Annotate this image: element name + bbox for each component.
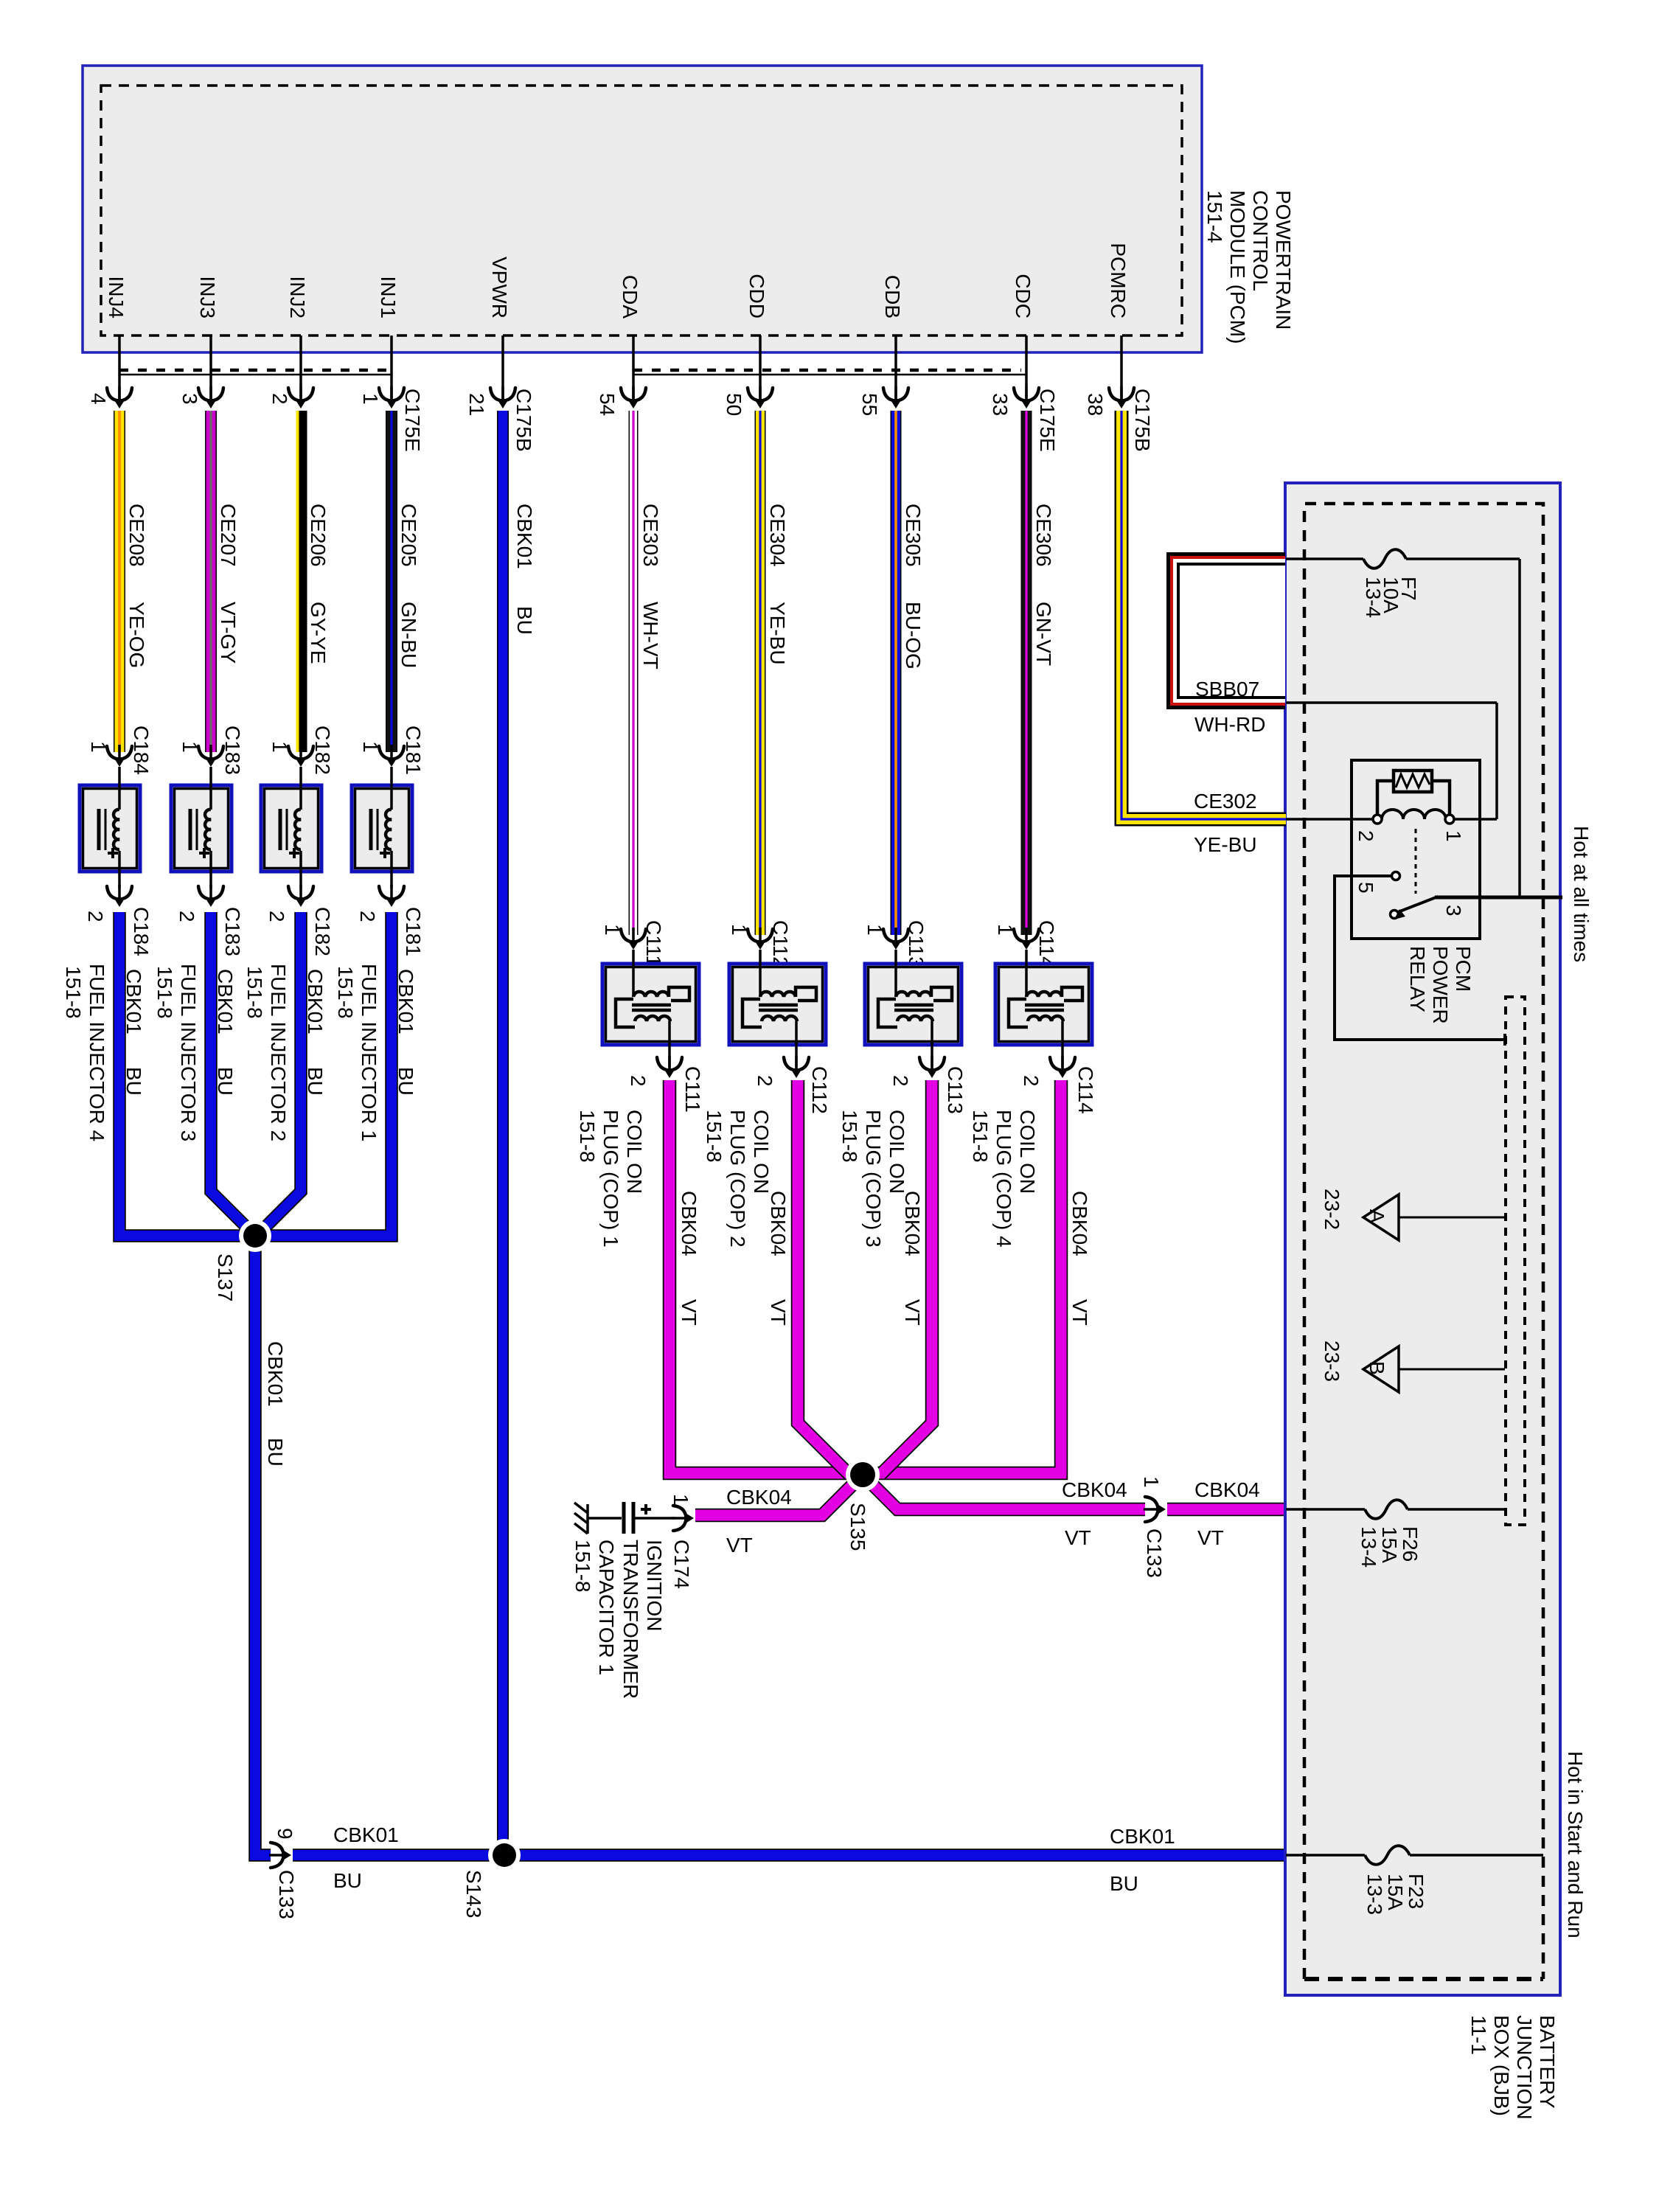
svg-text:23-2: 23-2	[1321, 1189, 1343, 1230]
svg-text:F23: F23	[1405, 1874, 1427, 1909]
svg-text:COIL ON: COIL ON	[750, 1110, 773, 1194]
svg-text:55: 55	[858, 393, 881, 416]
relay pin 3 feed (Hot at all times)	[1435, 897, 1562, 917]
labels coil on plug 4	[969, 1110, 1039, 1248]
svg-text:54: 54	[596, 393, 619, 416]
svg-text:C182: C182	[311, 726, 334, 775]
svg-text:151-8: 151-8	[571, 1540, 594, 1593]
fuse F23 labels	[1363, 1874, 1427, 1915]
svg-text:CBK01: CBK01	[264, 1341, 287, 1407]
svg-text:C112: C112	[808, 1066, 831, 1114]
CBK04 VT labels on coil drops	[678, 1191, 1091, 1326]
svg-text:CBK01: CBK01	[394, 969, 417, 1034]
svg-text:CBK01: CBK01	[122, 969, 145, 1034]
connector C174 pin 1 (ignition transformer capacitor)	[669, 1494, 695, 1589]
svg-text:Hot at all times: Hot at all times	[1570, 826, 1593, 962]
BJB inner compartment dashed box	[1506, 997, 1525, 1525]
coil on plug (COP) 2	[729, 950, 826, 1068]
svg-text:VT: VT	[1065, 1526, 1091, 1549]
svg-text:2: 2	[175, 911, 198, 922]
connector C113 pin 2 (coil on plug 3 low side)	[889, 1056, 967, 1114]
fuse F23 15A wiring	[1286, 1854, 1543, 1857]
svg-text:23-3: 23-3	[1321, 1340, 1343, 1382]
svg-text:13-3: 13-3	[1363, 1874, 1386, 1915]
svg-text:VT: VT	[767, 1299, 790, 1326]
svg-text:POWERTRAIN: POWERTRAIN	[1272, 190, 1295, 330]
label Hot in Start and Run	[1564, 1751, 1587, 1938]
svg-text:B: B	[1366, 1361, 1388, 1375]
svg-text:CE208: CE208	[125, 504, 148, 567]
svg-text:CDB: CDB	[881, 275, 904, 319]
svg-text:S143: S143	[462, 1870, 485, 1918]
wire CE206 GY-YE (PCM INJ2 to fuel injector 2)	[298, 411, 304, 752]
S137 drop labels CBK01 BU	[264, 1341, 287, 1467]
PCM pin name labels	[105, 243, 1130, 319]
wire CBK04 VT branch to ignition capacitor	[695, 1475, 863, 1515]
svg-text:C181: C181	[402, 726, 425, 775]
svg-text:CE207: CE207	[217, 504, 240, 567]
svg-text:COIL ON: COIL ON	[1016, 1110, 1039, 1194]
labels coil on plug 2	[703, 1110, 773, 1248]
ground bus labels CBK01 BU (right)	[1110, 1825, 1175, 1895]
capacitor branch labels CBK04 VT	[726, 1486, 792, 1557]
relay pin 2 terminal	[1354, 815, 1382, 842]
svg-text:C111: C111	[642, 920, 665, 967]
connector C133 pin 1 (CBK04 into BJB)	[1140, 1476, 1167, 1578]
svg-text:CE303: CE303	[639, 504, 662, 567]
svg-text:151-8: 151-8	[838, 1110, 861, 1163]
ignition transformer capacitor 1	[588, 1502, 675, 1534]
battery junction box (BJB)	[1285, 483, 1560, 1995]
svg-text:YE-BU: YE-BU	[1194, 833, 1257, 856]
wire CBK04 VT coil 1 drop + bus to coil 4	[669, 1080, 1061, 1473]
wire labels CE208 YE-OG	[125, 504, 148, 668]
svg-text:VPWR: VPWR	[488, 257, 511, 319]
svg-text:PLUG (COP) 2: PLUG (COP) 2	[726, 1110, 749, 1248]
fuse F26 15A wiring	[1286, 1508, 1506, 1511]
wire labels CE305 BU-OG	[902, 504, 925, 669]
svg-text:BU: BU	[513, 606, 536, 635]
svg-text:15A: 15A	[1384, 1874, 1407, 1910]
svg-text:1: 1	[669, 1494, 692, 1506]
svg-text:1: 1	[268, 741, 291, 753]
svg-text:BU: BU	[214, 1067, 237, 1096]
relay pin 5 terminal	[1354, 872, 1400, 894]
svg-text:151-8: 151-8	[153, 966, 176, 1019]
svg-text:INJ4: INJ4	[105, 276, 128, 319]
svg-text:CE302: CE302	[1194, 790, 1257, 813]
wire CBK01 BU injector 1 drop	[267, 912, 392, 1236]
svg-text:15A: 15A	[1378, 1526, 1401, 1563]
svg-text:FUEL INJECTOR 2: FUEL INJECTOR 2	[267, 964, 290, 1141]
svg-text:YE-OG: YE-OG	[125, 602, 148, 668]
wire CE207 VT-GY (PCM INJ3 to fuel injector 3)	[205, 411, 217, 752]
wire CBK01 BU injector 2 drop	[257, 912, 301, 1236]
connector C133 pin 9 (on ground bus)	[269, 1828, 298, 1919]
capacitor labels	[571, 1540, 666, 1699]
svg-text:CE305: CE305	[902, 504, 925, 567]
svg-text:CBK01: CBK01	[513, 504, 536, 569]
labels fuel injector 3 circuit	[153, 964, 237, 1141]
svg-text:2: 2	[627, 1075, 650, 1087]
svg-text:YE-BU: YE-BU	[766, 602, 789, 665]
connector C112 pin 1 (coil on plug 2)	[728, 920, 792, 968]
svg-text:BU: BU	[394, 1067, 417, 1096]
svg-text:CDA: CDA	[619, 275, 641, 319]
svg-text:C174: C174	[670, 1540, 693, 1589]
svg-text:1: 1	[359, 393, 382, 405]
connector C184 pin 2 (fuel injector 4 low side)	[84, 885, 153, 956]
splice S143	[462, 1839, 521, 1918]
svg-text:FUEL INJECTOR 1: FUEL INJECTOR 1	[358, 964, 380, 1141]
svg-text:COIL ON: COIL ON	[886, 1110, 908, 1194]
wire labels CE303 WH-VT	[639, 504, 662, 669]
wire CE306 GN-VT (PCM to coil on plug 4)	[1021, 411, 1032, 935]
svg-text:VT: VT	[1068, 1299, 1091, 1326]
labels coil on plug 3	[838, 1110, 908, 1248]
svg-text:CBK04: CBK04	[901, 1191, 924, 1256]
wire labels CE206 GY-YE	[307, 504, 330, 664]
svg-text:SBB07: SBB07	[1195, 678, 1259, 700]
connector C183 pin 2 (fuel injector 3 low side)	[175, 885, 244, 956]
PCM pin stub wires	[119, 335, 1121, 406]
labels fuel injector 4 circuit	[62, 964, 145, 1141]
svg-text:CBK04: CBK04	[678, 1191, 700, 1256]
svg-text:C181: C181	[402, 907, 425, 956]
svg-text:CE205: CE205	[397, 504, 420, 567]
splice S135	[846, 1458, 880, 1551]
ground (capacitor)	[574, 1503, 588, 1534]
svg-text:2: 2	[1020, 1075, 1043, 1087]
relay pin 5 output wire	[1335, 876, 1505, 1046]
svg-text:FUEL INJECTOR 3: FUEL INJECTOR 3	[177, 964, 200, 1141]
svg-text:PCMRC: PCMRC	[1107, 243, 1130, 319]
wire CE208 YE-OG (PCM INJ4 to fuel injector 4)	[114, 411, 125, 752]
svg-text:CONTROL: CONTROL	[1249, 190, 1272, 291]
wire CBK04 VT branch to BJB fuse F26	[863, 1475, 1286, 1509]
wire SBB07 WH-RD loop	[1166, 552, 1285, 709]
labels CBK04 VT after C133	[1194, 1478, 1260, 1549]
svg-text:C111: C111	[681, 1066, 704, 1113]
svg-text:GY-YE: GY-YE	[307, 602, 330, 664]
label Hot at all times	[1570, 826, 1593, 962]
wire CE302 link inside BJB to relay pin 2	[1286, 818, 1373, 821]
ground bus labels CBK01 BU (left)	[333, 1823, 399, 1892]
wire CBK04 VT coil 3 drop	[880, 1080, 932, 1475]
svg-text:C175B: C175B	[512, 389, 535, 452]
fuel injector 2	[261, 767, 321, 888]
svg-text:C175B: C175B	[1131, 389, 1154, 452]
BJB inner dashed border	[1304, 504, 1543, 1979]
fuse F7 labels	[1362, 577, 1420, 618]
svg-text:2: 2	[84, 911, 107, 922]
connector C114 pin 2 (coil on plug 4 low side)	[1020, 1056, 1097, 1114]
svg-text:BU-OG: BU-OG	[902, 602, 925, 669]
svg-text:BU: BU	[333, 1869, 362, 1892]
svg-text:INJ1: INJ1	[377, 276, 400, 319]
svg-text:F26: F26	[1399, 1526, 1422, 1562]
SBB07 labels	[1194, 678, 1265, 736]
svg-text:CE304: CE304	[766, 504, 789, 567]
svg-text:CBK04: CBK04	[1068, 1191, 1091, 1256]
svg-text:CAPACITOR 1: CAPACITOR 1	[595, 1540, 618, 1675]
svg-text:JUNCTION: JUNCTION	[1513, 2015, 1536, 2120]
svg-text:VT: VT	[726, 1534, 753, 1557]
wire CBK04 VT coil 2 drop	[798, 1080, 849, 1475]
svg-text:VT: VT	[901, 1299, 924, 1326]
svg-text:2: 2	[754, 1075, 776, 1087]
svg-text:CBK01: CBK01	[214, 969, 237, 1034]
wire labels CE306 GN-VT	[1032, 504, 1055, 666]
svg-text:CBK04: CBK04	[1194, 1478, 1260, 1501]
svg-text:CE206: CE206	[307, 504, 330, 567]
fuse F26 labels	[1357, 1526, 1422, 1568]
svg-text:Hot in Start and Run: Hot in Start and Run	[1564, 1751, 1587, 1938]
svg-text:BU: BU	[1110, 1872, 1138, 1895]
svg-text:1: 1	[1140, 1476, 1163, 1488]
fuse F7 10A wiring	[1286, 559, 1520, 896]
svg-text:C184: C184	[130, 726, 153, 775]
svg-text:1: 1	[994, 924, 1017, 936]
coil on plug (COP) 1	[602, 950, 699, 1068]
PCM label	[1203, 190, 1295, 344]
svg-text:CBK01: CBK01	[1110, 1825, 1175, 1848]
fuse F23	[1365, 1846, 1410, 1865]
svg-text:COIL ON: COIL ON	[623, 1110, 646, 1194]
svg-text:CBK01: CBK01	[333, 1823, 399, 1846]
svg-text:WH-RD: WH-RD	[1194, 713, 1265, 736]
svg-text:A: A	[1366, 1209, 1388, 1223]
svg-text:C183: C183	[221, 907, 244, 956]
svg-text:50: 50	[723, 393, 745, 416]
VPWR wire labels CBK01 BU	[513, 504, 536, 635]
svg-text:1: 1	[359, 741, 382, 753]
svg-text:INJ2: INJ2	[286, 276, 309, 319]
CE302 labels	[1194, 790, 1257, 856]
svg-text:BU: BU	[304, 1067, 327, 1096]
svg-text:151-8: 151-8	[243, 966, 266, 1019]
connector C111 pin 1 (coil on plug 1)	[601, 920, 665, 967]
fuel injector 3	[171, 767, 232, 888]
relay pin 1 terminal	[1442, 815, 1465, 842]
wire CBK01 BU injector 3 drop	[211, 912, 255, 1236]
svg-text:2: 2	[265, 911, 288, 922]
connector C182 pin 2 (fuel injector 2 low side)	[265, 885, 334, 956]
fuel injector 4	[80, 767, 140, 888]
connector C184 pin 1 (fuel injector 4)	[87, 726, 153, 775]
connector C181 pin 2 (fuel injector 1 low side)	[356, 885, 425, 956]
svg-text:151-8: 151-8	[969, 1110, 992, 1163]
coil on plug (COP) 3	[865, 950, 961, 1068]
svg-text:C113: C113	[944, 1066, 967, 1114]
connector C114 pin 1 (coil on plug 4)	[994, 920, 1058, 968]
svg-text:INJ3: INJ3	[196, 276, 219, 319]
connector C181 pin 1 (fuel injector 1)	[359, 726, 425, 775]
fuel injector 1	[352, 767, 412, 888]
connector C112 pin 2 (coil on plug 2 low side)	[754, 1056, 831, 1114]
PCM connector id labels	[401, 389, 1154, 452]
wire CBK01 BU injector 4 drop	[119, 912, 243, 1236]
svg-text:BOX (BJB): BOX (BJB)	[1490, 2015, 1513, 2116]
off-page triangle B (23-3)	[1321, 1340, 1505, 1392]
connector C183 pin 1 (fuel injector 3)	[178, 726, 244, 775]
svg-text:1: 1	[601, 924, 624, 936]
splice S137	[214, 1220, 271, 1301]
wire CE305 BU-OG (PCM to coil on plug 3)	[891, 411, 902, 935]
wire SBB07 to relay pin 1	[1286, 703, 1497, 819]
svg-text:3: 3	[178, 393, 201, 405]
relay switch blade (pin 3)	[1391, 897, 1439, 919]
svg-text:POWER: POWER	[1429, 946, 1452, 1024]
wire CE302 YE-BU (PCMRC to relay coil)	[1121, 411, 1286, 819]
off-page triangle A (23-2)	[1321, 1189, 1505, 1240]
svg-text:9: 9	[274, 1828, 296, 1840]
svg-text:CE306: CE306	[1032, 504, 1055, 567]
wire CBK01 BU (S137 down to ground bus)	[255, 1236, 1286, 1855]
svg-text:151-8: 151-8	[703, 1110, 726, 1163]
connector C111 pin 2 (coil on plug 1 low side)	[627, 1056, 704, 1113]
svg-text:C183: C183	[221, 726, 244, 775]
svg-text:CBK01: CBK01	[304, 969, 327, 1034]
svg-text:1: 1	[178, 741, 201, 753]
relay coil suppression resistor	[1377, 771, 1450, 814]
svg-text:VT: VT	[1197, 1526, 1224, 1549]
coil on plug (COP) 4	[995, 950, 1092, 1068]
svg-text:11-1: 11-1	[1467, 2015, 1490, 2055]
wire CE303 WH-VT (PCM to coil on plug 1)	[629, 411, 639, 935]
svg-text:VT: VT	[678, 1299, 700, 1326]
svg-text:WH-VT: WH-VT	[639, 602, 662, 669]
svg-text:GN-VT: GN-VT	[1032, 602, 1055, 666]
svg-text:2: 2	[1354, 830, 1377, 842]
PCM pin numbers	[87, 393, 1107, 416]
svg-text:13-4: 13-4	[1357, 1526, 1380, 1568]
labels coil on plug 1	[576, 1110, 646, 1248]
fuse F7	[1363, 549, 1406, 568]
svg-text:IGNITION: IGNITION	[643, 1540, 666, 1631]
svg-text:C182: C182	[311, 907, 334, 956]
svg-text:BU: BU	[264, 1438, 287, 1467]
svg-text:PLUG (COP) 3: PLUG (COP) 3	[862, 1110, 885, 1248]
svg-text:C133: C133	[1143, 1528, 1166, 1578]
svg-text:151-4: 151-4	[1203, 190, 1226, 243]
svg-text:C114: C114	[1035, 920, 1058, 968]
svg-text:CBK04: CBK04	[1062, 1478, 1127, 1501]
svg-text:2: 2	[356, 911, 379, 922]
svg-text:C175E: C175E	[1036, 389, 1059, 452]
svg-text:151-8: 151-8	[576, 1110, 599, 1163]
connector C182 pin 1 (fuel injector 2)	[268, 726, 334, 775]
svg-text:PLUG (COP) 1: PLUG (COP) 1	[599, 1110, 622, 1248]
wire labels CE207 VT-GY	[217, 504, 240, 664]
svg-text:C113: C113	[905, 920, 928, 968]
svg-text:C184: C184	[130, 907, 153, 956]
svg-text:151-8: 151-8	[334, 966, 357, 1019]
svg-text:VT-GY: VT-GY	[217, 602, 240, 664]
svg-text:BATTERY: BATTERY	[1536, 2015, 1559, 2109]
svg-text:13-4: 13-4	[1362, 577, 1385, 618]
fuse F26	[1365, 1500, 1408, 1519]
relay coil	[1382, 810, 1446, 819]
svg-text:S135: S135	[846, 1503, 869, 1551]
labels fuel injector 2 circuit	[243, 964, 327, 1141]
svg-text:4: 4	[87, 393, 110, 405]
svg-text:3: 3	[1442, 905, 1465, 917]
svg-text:BU: BU	[122, 1067, 145, 1096]
svg-text:S137: S137	[214, 1253, 237, 1301]
svg-text:FUEL INJECTOR 4: FUEL INJECTOR 4	[86, 964, 108, 1141]
BJB branch labels CBK04 VT	[1062, 1478, 1127, 1549]
labels fuel injector 1 circuit	[334, 964, 417, 1141]
wire labels CE205 GN-BU	[397, 504, 420, 668]
wire CBK01 BU (VPWR feed, PCM pin 21 down to S143)	[497, 411, 509, 1855]
svg-text:CBK04: CBK04	[767, 1191, 790, 1256]
svg-text:1: 1	[1442, 830, 1465, 842]
svg-text:CDD: CDD	[745, 274, 768, 319]
BATTERY JUNCTION BOX label	[1467, 2015, 1559, 2120]
svg-text:2: 2	[889, 1075, 912, 1087]
connector C113 pin 1 (coil on plug 3)	[863, 920, 928, 968]
PCM pin connector arrows	[107, 386, 1134, 408]
svg-text:C175E: C175E	[401, 389, 424, 452]
svg-text:C133: C133	[275, 1870, 298, 1919]
PCM power relay box	[1352, 760, 1480, 939]
svg-text:1: 1	[728, 924, 751, 936]
svg-text:MODULE (PCM): MODULE (PCM)	[1226, 190, 1249, 344]
svg-text:PCM: PCM	[1452, 946, 1475, 992]
svg-text:RELAY: RELAY	[1406, 946, 1429, 1012]
svg-text:C112: C112	[769, 920, 792, 968]
wire CE304 YE-BU (PCM to coil on plug 2)	[755, 411, 766, 935]
connector C175E dashed harness line (INJ group)	[119, 370, 392, 375]
PCM POWER RELAY label	[1406, 946, 1475, 1024]
svg-text:CDC: CDC	[1012, 274, 1034, 319]
svg-text:21: 21	[465, 393, 488, 416]
svg-text:151-8: 151-8	[62, 966, 85, 1019]
svg-text:5: 5	[1354, 882, 1377, 894]
svg-text:C114: C114	[1074, 1066, 1097, 1114]
svg-text:GN-BU: GN-BU	[397, 602, 420, 668]
connector C175E dashed harness line (CD group)	[633, 370, 1026, 375]
svg-text:1: 1	[87, 741, 110, 753]
svg-text:2: 2	[268, 393, 291, 405]
relay actuator dashed link	[1415, 829, 1417, 894]
svg-text:PLUG (COP) 4: PLUG (COP) 4	[992, 1110, 1015, 1248]
svg-text:CBK04: CBK04	[726, 1486, 792, 1509]
svg-text:TRANSFORMER: TRANSFORMER	[619, 1540, 642, 1699]
svg-text:1: 1	[863, 924, 886, 936]
wire labels CE304 YE-BU	[766, 504, 789, 665]
svg-text:38: 38	[1084, 393, 1107, 416]
svg-text:33: 33	[989, 393, 1012, 416]
PCM module box (POWERTRAIN CONTROL MODULE)	[83, 66, 1202, 352]
wire CE205 GN-BU (PCM INJ1 to fuel injector 1)	[386, 411, 397, 752]
